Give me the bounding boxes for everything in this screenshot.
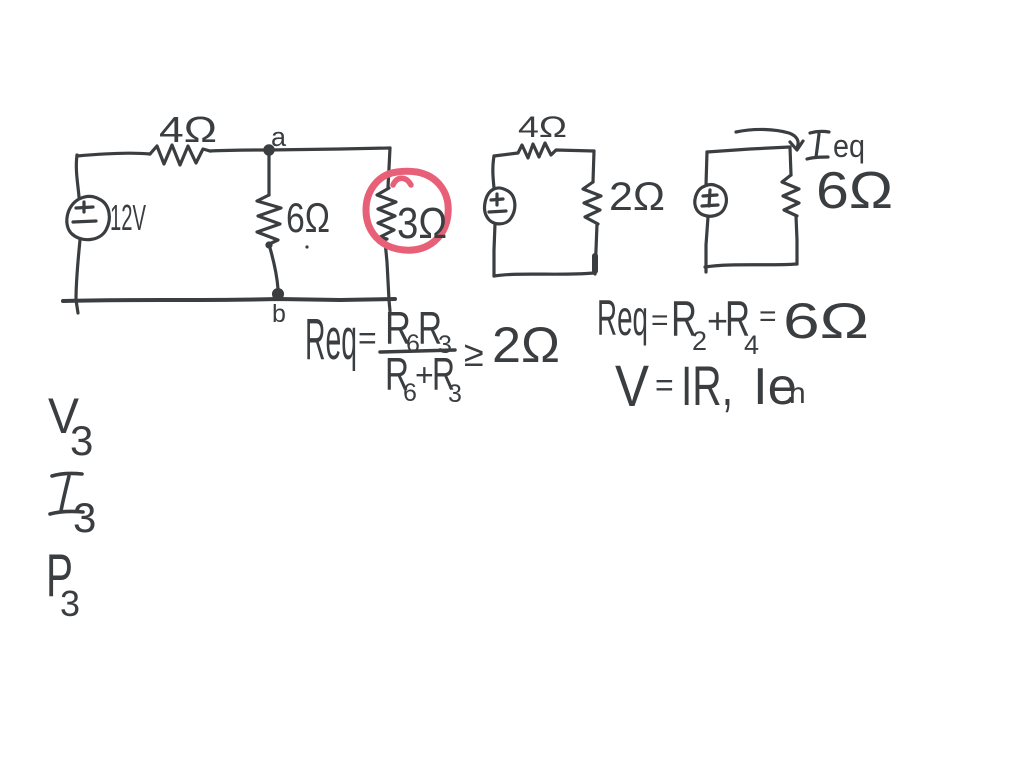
svg-text:2Ω: 2Ω <box>492 317 560 373</box>
svg-text:IR,: IR, <box>681 354 733 417</box>
svg-text:a: a <box>271 122 287 152</box>
svg-text:4: 4 <box>744 330 759 360</box>
svg-text:=: = <box>759 300 777 333</box>
svg-text:3: 3 <box>448 380 462 408</box>
svg-text:=: = <box>655 367 674 403</box>
svg-text:≥: ≥ <box>464 333 484 374</box>
svg-text:12V: 12V <box>110 197 146 238</box>
svg-text:3: 3 <box>60 583 80 624</box>
svg-text:Req: Req <box>305 307 357 372</box>
svg-text:2Ω: 2Ω <box>609 175 665 219</box>
svg-text:+: + <box>415 357 434 393</box>
svg-text:Req: Req <box>597 290 648 346</box>
svg-text:V: V <box>615 354 649 419</box>
svg-text:eq: eq <box>833 128 865 164</box>
svg-text:4Ω: 4Ω <box>159 109 217 150</box>
svg-text:3: 3 <box>73 494 96 541</box>
svg-text:=: = <box>651 304 669 337</box>
svg-text:=: = <box>358 320 377 356</box>
svg-text:6Ω: 6Ω <box>816 162 893 220</box>
svg-text:6Ω: 6Ω <box>783 293 869 349</box>
svg-text:2: 2 <box>692 326 707 356</box>
svg-text:n: n <box>789 377 806 410</box>
svg-text:6Ω: 6Ω <box>286 194 330 241</box>
svg-text:b: b <box>272 300 286 328</box>
svg-text:4Ω: 4Ω <box>518 111 567 144</box>
svg-text:3Ω: 3Ω <box>397 199 447 248</box>
svg-text:3: 3 <box>70 417 93 464</box>
